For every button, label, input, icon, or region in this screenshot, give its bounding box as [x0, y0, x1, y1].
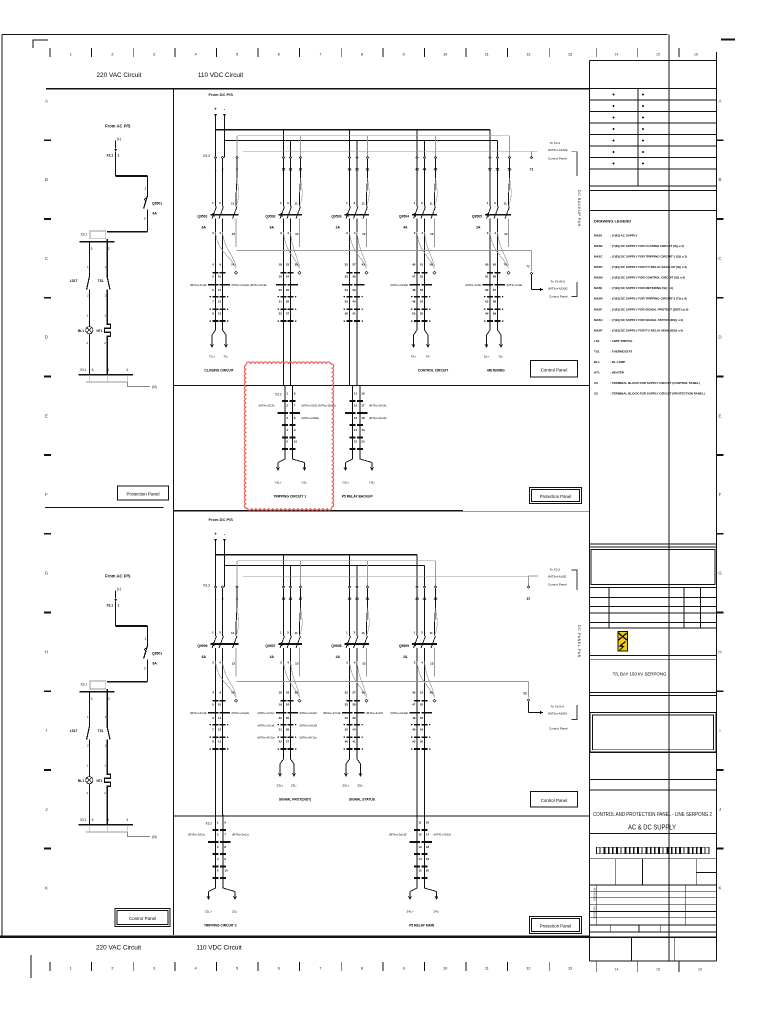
svg-text:From DC P/S: From DC P/S — [209, 92, 234, 97]
svg-text:12: 12 — [418, 833, 422, 837]
svg-text:HT1: HT1 — [96, 329, 102, 333]
svg-text:32: 32 — [345, 263, 349, 267]
svg-text:From AC P/S: From AC P/S — [105, 124, 131, 129]
connector/terminal rows of Q9508 circuit — [323, 690, 383, 750]
connector/terminal rows of Q9506 circuit — [190, 690, 249, 750]
svg-text:55: 55 — [420, 740, 424, 744]
svg-text:MA50: MA50 — [594, 233, 602, 237]
svg-text:Q9507: Q9507 — [265, 644, 275, 648]
svg-text:LS1T: LS1T — [70, 729, 78, 733]
svg-text:HT1: HT1 — [96, 779, 102, 783]
power source From AC P/S (control panel) — [105, 124, 131, 153]
svg-text:39: 39 — [352, 716, 356, 720]
svg-text:11: 11 — [354, 391, 357, 395]
svg-text:2A: 2A — [403, 655, 408, 659]
value labels bottom connector rows — [257, 724, 317, 740]
terminal 72 — [526, 265, 533, 275]
svg-text:TA-: TA- — [426, 355, 431, 359]
svg-text:BL1: BL1 — [594, 360, 600, 364]
svg-text:11: 11 — [295, 631, 299, 635]
svg-text:6A: 6A — [153, 662, 158, 666]
svg-text:X3.1: X3.1 — [81, 683, 88, 687]
svg-text:50: 50 — [412, 312, 416, 316]
wire: Q9509 feed to P5 relay main — [417, 749, 425, 816]
svg-text:2: 2 — [111, 53, 113, 57]
svg-text:58: 58 — [523, 692, 527, 696]
svg-text:(MTAx+2w1)E: (MTAx+2w1)E — [390, 283, 408, 287]
net arrows DL+/DL- (METERING) — [484, 321, 504, 358]
svg-text:14: 14 — [615, 53, 619, 57]
svg-text:4A: 4A — [270, 655, 275, 659]
svg-text:11: 11 — [218, 716, 221, 720]
svg-text:46: 46 — [412, 263, 416, 267]
svg-text:11: 11 — [362, 202, 366, 206]
svg-text:25: 25 — [286, 716, 290, 720]
label box Control Panel (top middle right) — [531, 361, 578, 378]
svg-text:(MTAx+2Y1)x: (MTAx+2Y1)x — [258, 711, 276, 715]
wire: left branch — [88, 692, 90, 727]
svg-text:3: 3 — [153, 53, 155, 57]
svg-text:: (Y)E() DC SUPPLY FOR SIGNAL: : (Y)E() DC SUPPLY FOR SIGNAL STATUS (DS… — [610, 318, 683, 322]
svg-text:H: H — [718, 649, 721, 654]
svg-text:(MTAx+S/1)E: (MTAx+S/1)E — [190, 711, 207, 715]
wires to lamp/heater — [89, 290, 107, 327]
svg-text:4: 4 — [195, 967, 197, 971]
svg-text:Z5L+: Z5L+ — [343, 784, 350, 788]
svg-text:47: 47 — [412, 275, 416, 279]
breaker Q9508 4A — [331, 588, 369, 697]
wire: gray aux tie (bottom) — [237, 682, 529, 698]
svg-text:To X3.3: To X3.3 — [550, 567, 561, 571]
svg-text:12: 12 — [218, 728, 222, 732]
svg-text:Q9505: Q9505 — [472, 215, 482, 219]
svg-text:11: 11 — [418, 820, 421, 824]
svg-text:X3.1: X3.1 — [80, 818, 87, 822]
svg-text:T/L BAY 150 kV SERPONG: T/L BAY 150 kV SERPONG — [613, 672, 667, 677]
svg-text:20: 20 — [426, 868, 430, 872]
lamp BL1 — [78, 764, 93, 796]
svg-text:49: 49 — [412, 728, 416, 732]
svg-text:15: 15 — [656, 968, 660, 972]
svg-text:2: 2 — [108, 247, 110, 251]
svg-text:I: I — [46, 728, 47, 733]
svg-text:50: 50 — [412, 740, 416, 744]
svg-text:(MT3x+A1/)E: (MT3x+A1/)E — [548, 575, 566, 579]
svg-text:40: 40 — [352, 728, 356, 732]
svg-text:X3: X3 — [594, 381, 598, 385]
svg-text:52: 52 — [420, 275, 424, 279]
svg-text:14: 14 — [615, 968, 619, 972]
label box Protection Panel (bottom middle right) — [530, 917, 582, 934]
heater HT1 — [96, 764, 110, 796]
label box Protection Panel (left top) — [118, 486, 169, 500]
svg-text:MA5H: MA5H — [594, 318, 603, 322]
svg-text:19: 19 — [361, 428, 365, 432]
svg-text:4: 4 — [126, 818, 128, 822]
terminal block rows TRIPPING CIRCUIT 1 — [259, 385, 336, 449]
svg-text:X3.1: X3.1 — [80, 368, 87, 372]
svg-text:72: 72 — [526, 265, 530, 269]
wire: auxiliary rail (gray upper) — [237, 561, 436, 587]
svg-text:DC BACKUP PAN.: DC BACKUP PAN. — [577, 190, 581, 228]
svg-text:3: 3 — [91, 697, 93, 701]
svg-text:Z1L+: Z1L+ — [205, 910, 212, 914]
svg-text:15: 15 — [354, 439, 358, 443]
svg-text:(L): (L) — [117, 137, 121, 141]
svg-text:Z4L+: Z4L+ — [407, 910, 414, 914]
breaker Q9506 6A — [197, 588, 238, 697]
svg-text:: (Y)E() DC SUPPLY FOR CLOSING: : (Y)E() DC SUPPLY FOR CLOSING CIRCUIT (… — [610, 244, 684, 248]
svg-text:12: 12 — [362, 232, 366, 236]
svg-text:6A: 6A — [153, 212, 158, 216]
svg-text:14: 14 — [231, 263, 235, 267]
wire: control/protection separator (bottom middle) — [174, 815, 590, 817]
svg-text:17: 17 — [426, 833, 430, 837]
svg-text:26: 26 — [286, 300, 290, 304]
svg-text:64: 64 — [485, 312, 489, 316]
svg-text:Q9509: Q9509 — [399, 644, 409, 648]
terminal X3.1 pin 1 — [107, 604, 120, 608]
svg-text:F: F — [719, 492, 722, 497]
svg-text:(MTAx+8Y1)a: (MTAx+8Y1)a — [300, 736, 318, 740]
svg-text:DC PANEL PAN.: DC PANEL PAN. — [577, 625, 581, 660]
svg-text:TRIPPING CIRCUIT 2: TRIPPING CIRCUIT 2 — [204, 924, 237, 928]
svg-text:(M3Ax+2Y1)E: (M3Ax+2Y1)E — [323, 711, 341, 715]
svg-text:23: 23 — [286, 263, 290, 267]
net To X3.4 from terminal 72 — [532, 275, 578, 298]
svg-text:APPROVAL: APPROVAL — [593, 888, 597, 902]
svg-text:67: 67 — [493, 288, 497, 292]
svg-text:54: 54 — [420, 300, 424, 304]
net To X3.3 (bottom right) — [529, 567, 578, 590]
svg-text:1: 1 — [145, 637, 147, 641]
node (N) neutral — [127, 832, 156, 839]
svg-text:69: 69 — [493, 312, 497, 316]
svg-text:1: 1 — [70, 53, 72, 57]
svg-text:54: 54 — [420, 728, 424, 732]
svg-text:16: 16 — [698, 968, 702, 972]
svg-text:DRAWING LEGEND: DRAWING LEGEND — [594, 219, 631, 224]
svg-text:16: 16 — [361, 391, 365, 395]
svg-text:(MTAx+S/1)E: (MTAx+S/1)E — [190, 283, 207, 287]
svg-text:(MTAx+2w1)E: (MTAx+2w1)E — [389, 833, 407, 837]
svg-text:TS1: TS1 — [594, 349, 600, 353]
svg-text:X3.1: X3.1 — [107, 154, 114, 158]
terminal block rows P5 RELAY BACKUP — [345, 385, 387, 449]
terminal block rows TRIPPING CIRCUIT 2 — [188, 814, 250, 878]
svg-text:(MT3x+A1X)E: (MT3x+A1X)E — [548, 148, 568, 152]
svg-text:27: 27 — [286, 740, 290, 744]
svg-text:6A: 6A — [202, 226, 207, 230]
net arrows TA+/TA- (CONTROL CIRCUIT) — [411, 321, 431, 358]
net arrows Z5L+/Z5L- (SIGNAL STATUS) — [343, 750, 364, 787]
svg-text:: (Y)E() DC SUPPLY FOR SIGNAL: : (Y)E() DC SUPPLY FOR SIGNAL PROTECT (D… — [610, 307, 688, 311]
svg-text:41: 41 — [352, 312, 356, 316]
svg-text:10: 10 — [218, 703, 222, 707]
svg-text:H: H — [45, 649, 48, 654]
svg-text:7: 7 — [319, 967, 321, 971]
svg-text:Control Panel: Control Panel — [541, 368, 568, 373]
wire from X3.1-1 to switch — [116, 602, 148, 646]
svg-text:35: 35 — [345, 300, 349, 304]
svg-text:(L): (L) — [117, 587, 121, 591]
svg-text:(MT3x+S/1E: (MT3x+S/1E — [507, 283, 523, 287]
svg-text:MA5F: MA5F — [594, 307, 602, 311]
terminal block X3.1 (bottom bus) — [79, 368, 134, 382]
svg-text:68: 68 — [493, 300, 497, 304]
svg-text:61: 61 — [485, 275, 489, 279]
svg-text:13: 13 — [568, 967, 572, 971]
svg-text:14: 14 — [354, 428, 358, 432]
svg-text:5: 5 — [236, 967, 238, 971]
svg-text:X3.2: X3.2 — [203, 154, 210, 158]
svg-text:(MT41+2H1)K: (MT41+2H1)K — [434, 833, 452, 837]
lamp BL1 — [78, 314, 93, 346]
svg-text:Protection Panel: Protection Panel — [540, 494, 572, 499]
wire: Q9502 feed to tripping circuit 1 — [284, 321, 291, 385]
svg-text:: (Y)E() DC SUPPLY FOR CONTROL: : (Y)E() DC SUPPLY FOR CONTROL CIRCUIT (… — [610, 276, 685, 280]
svg-text:5: 5 — [107, 818, 109, 822]
svg-text:16: 16 — [426, 820, 430, 824]
svg-text:63: 63 — [485, 300, 489, 304]
wire from switch to bus X3.1 — [107, 210, 147, 232]
svg-text:T/L+: T/L+ — [209, 355, 215, 359]
svg-text:Z5L-: Z5L- — [357, 784, 363, 788]
svg-text:CONTROL CIRCUIT: CONTROL CIRCUIT — [418, 369, 449, 373]
wire: gray aux tie (top) — [237, 251, 532, 272]
svg-text:37: 37 — [352, 263, 356, 267]
wire: Q9506 feed to tripping circuit 2 — [216, 749, 223, 816]
svg-text:11: 11 — [231, 202, 235, 206]
net arrows Y2L+/Y2L- (TRIPPING CIRCUIT 1) — [274, 449, 307, 485]
svg-text:TA+: TA+ — [411, 355, 417, 359]
svg-text:12: 12 — [504, 232, 508, 236]
svg-text:: (Y)E() AC SUPPLY: : (Y)E() AC SUPPLY — [610, 233, 637, 237]
svg-text:9: 9 — [403, 53, 405, 57]
svg-text:7: 7 — [319, 53, 321, 57]
svg-text:57: 57 — [527, 597, 531, 601]
svg-text:26: 26 — [286, 728, 290, 732]
title block: barcode strip — [590, 847, 717, 859]
limit switch LS1T — [70, 715, 90, 748]
svg-text:(MTAx+S1E) (MTAx+2H1E): (MTAx+S1E) (MTAx+2H1E) — [302, 404, 336, 408]
heater HT1 — [96, 314, 110, 346]
title block: drawing number row — [590, 779, 717, 790]
terminal block X3.1 (top bus) — [79, 681, 114, 701]
svg-text:Z3L-: Z3L- — [291, 784, 297, 788]
svg-text:110 VDC Circuit: 110 VDC Circuit — [196, 945, 242, 952]
svg-text:35: 35 — [345, 728, 349, 732]
wire: section separator above DC protection part — [174, 510, 463, 512]
svg-text:11: 11 — [485, 53, 489, 57]
svg-text:From DC P/S: From DC P/S — [209, 517, 234, 522]
svg-text:36: 36 — [345, 740, 349, 744]
svg-text:56: 56 — [430, 691, 434, 695]
wire: header separator — [46, 88, 590, 90]
svg-text:BL1: BL1 — [78, 329, 84, 333]
svg-text:D: D — [718, 335, 721, 340]
svg-text:11: 11 — [362, 631, 366, 635]
svg-text:To X3.5-A: To X3.5-A — [551, 704, 566, 708]
svg-text:Control Panel: Control Panel — [129, 916, 156, 921]
svg-text:10: 10 — [294, 439, 298, 443]
svg-text:37: 37 — [352, 691, 356, 695]
svg-text:Q9508: Q9508 — [331, 644, 341, 648]
svg-text:2A: 2A — [476, 226, 481, 230]
svg-text:110 VDC Circuit: 110 VDC Circuit — [198, 72, 244, 79]
wire: left branch — [88, 242, 90, 277]
svg-text:10: 10 — [224, 868, 228, 872]
wire: AC/DC section divider — [173, 89, 175, 935]
svg-text:41: 41 — [352, 740, 356, 744]
svg-text:K: K — [719, 886, 722, 891]
switch Q9501 6A (control panel) — [144, 187, 163, 221]
svg-text:33: 33 — [345, 703, 349, 707]
svg-text:: LIMIT SWITCH: : LIMIT SWITCH — [610, 339, 632, 343]
svg-text:220 VAC Circuit: 220 VAC Circuit — [96, 945, 141, 952]
svg-text:I: I — [719, 728, 720, 733]
net To X3.4 from terminal 58 — [529, 702, 578, 731]
terminal block rows P5 RELAY MAIN — [389, 814, 451, 878]
svg-text:66: 66 — [493, 275, 497, 279]
svg-text:(MTAx+3u1)K: (MTAx+3u1)K — [366, 711, 383, 715]
svg-text:20: 20 — [361, 439, 365, 443]
svg-text:2: 2 — [144, 217, 146, 221]
svg-text:53: 53 — [420, 716, 424, 720]
svg-text:11: 11 — [485, 967, 489, 971]
svg-text:J: J — [719, 807, 721, 812]
net arrows Z4L+/Z4L- (P5 RELAY MAIN) — [407, 878, 440, 914]
svg-text:18: 18 — [426, 845, 430, 849]
svg-text:25: 25 — [286, 288, 290, 292]
svg-text:27: 27 — [286, 312, 290, 316]
svg-text:24: 24 — [286, 275, 290, 279]
svg-text:K: K — [45, 886, 48, 891]
title block: bay name box — [590, 655, 717, 695]
svg-text:J: J — [45, 807, 47, 812]
svg-text:28: 28 — [295, 691, 299, 695]
switch Q9501 6A (protection panel) — [144, 637, 163, 671]
svg-text:23: 23 — [286, 691, 290, 695]
wires to lamp/heater — [89, 740, 107, 777]
svg-text:LS1: LS1 — [594, 339, 600, 343]
svg-text:MA5B: MA5B — [594, 244, 603, 248]
wire: DC - distribution rail — [225, 141, 498, 158]
svg-text:Q9501: Q9501 — [197, 215, 207, 219]
svg-text:4: 4 — [126, 368, 128, 372]
svg-text:: (Y)E() DC SUPPLY FOR METERIN: : (Y)E() DC SUPPLY FOR METERING (S)( v.4… — [610, 286, 673, 290]
svg-text:Control Panel: Control Panel — [541, 798, 568, 803]
svg-text:DL+: DL+ — [484, 355, 490, 359]
svg-text:6A: 6A — [270, 226, 275, 230]
title block: company box — [590, 544, 717, 588]
svg-text:4: 4 — [195, 53, 197, 57]
svg-text:P5 RELAY BACKUP: P5 RELAY BACKUP — [342, 495, 374, 499]
svg-text:P5 RELAY MAIN: P5 RELAY MAIN — [409, 924, 435, 928]
svg-text:(MTAx+2H1K): (MTAx+2H1K) — [369, 404, 387, 408]
svg-text:Q9506: Q9506 — [197, 644, 207, 648]
svg-text:9: 9 — [403, 967, 405, 971]
svg-text:MA5P: MA5P — [594, 328, 602, 332]
svg-text:(MTAx+2H1K): (MTAx+2H1K) — [369, 416, 387, 420]
svg-text:C: C — [45, 256, 48, 261]
connector/terminal rows of Q9501 circuit — [190, 262, 267, 322]
svg-text:71: 71 — [530, 168, 534, 172]
svg-text:D: D — [45, 335, 48, 340]
title block: reference table — [585, 859, 717, 961]
net arrows Z1L+/Z1L- (TRIPPING CIRCUIT 2) — [205, 878, 238, 914]
label box Control Panel (bottom middle right) — [531, 792, 578, 808]
svg-text:F: F — [45, 492, 48, 497]
svg-text:14: 14 — [418, 857, 422, 861]
svg-text:12: 12 — [430, 232, 434, 236]
wire: DC - distribution rail — [225, 566, 425, 588]
svg-text:B: B — [719, 177, 722, 182]
svg-text:E: E — [719, 413, 722, 418]
svg-text:38: 38 — [352, 275, 356, 279]
svg-text:12: 12 — [295, 232, 299, 236]
svg-text:Q9501: Q9501 — [152, 202, 162, 206]
terminal strip X3.2 — [203, 154, 533, 171]
title block: drawing title — [590, 812, 717, 834]
svg-text:SIGNAL PROT(DIST): SIGNAL PROT(DIST) — [279, 798, 311, 802]
svg-text:12: 12 — [430, 661, 434, 665]
svg-text:Control Panel: Control Panel — [548, 583, 567, 587]
svg-text:X3.3: X3.3 — [203, 584, 210, 588]
power source From DC P/S (protection side) — [209, 517, 234, 587]
svg-text:(MTAx+8Y1)a: (MTAx+8Y1)a — [257, 736, 275, 740]
svg-text:METERING: METERING — [487, 369, 505, 373]
svg-text:12: 12 — [218, 300, 222, 304]
svg-text:: (Y)E() DC SUPPLY FOR P 5 REL: : (Y)E() DC SUPPLY FOR P 5 RELAY BACK-UP… — [610, 265, 687, 269]
svg-text:52: 52 — [420, 703, 424, 707]
svg-text:24: 24 — [286, 703, 290, 707]
svg-text:4A: 4A — [336, 655, 341, 659]
breaker Q9501 6A — [197, 159, 238, 268]
svg-text:Q9502: Q9502 — [265, 215, 275, 219]
svg-text:: HEATER: : HEATER — [610, 371, 625, 375]
svg-text:4A: 4A — [403, 226, 408, 230]
svg-text:Control Panel: Control Panel — [548, 157, 567, 161]
connector/terminal rows of Q9504 circuit — [390, 262, 435, 322]
svg-text:Z4L-: Z4L- — [433, 910, 439, 914]
svg-text:Z1L-: Z1L- — [232, 910, 238, 914]
svg-text:12: 12 — [232, 661, 236, 665]
svg-text:48: 48 — [412, 288, 416, 292]
svg-text:13: 13 — [218, 740, 222, 744]
wire from X3.1-1 to switch — [116, 152, 148, 196]
svg-text:33: 33 — [345, 275, 349, 279]
svg-text:Q9501: Q9501 — [152, 652, 162, 656]
svg-text:G: G — [45, 571, 49, 576]
wire from switch to bus X3.1 — [107, 660, 147, 682]
svg-text:56: 56 — [430, 263, 434, 267]
net arrows T/L+/T/L- (CLOSING CIRCUIT) — [209, 321, 229, 358]
connector/terminal rows of Q9507 circuit — [258, 690, 318, 750]
svg-text:22: 22 — [279, 740, 283, 744]
svg-text:13: 13 — [568, 53, 572, 57]
svg-text:22: 22 — [279, 312, 283, 316]
svg-text:E: E — [45, 413, 48, 418]
svg-text:42: 42 — [362, 691, 366, 695]
svg-text:12: 12 — [295, 661, 299, 665]
power source From AC P/S (protection panel) — [105, 574, 131, 603]
svg-text:10: 10 — [443, 967, 447, 971]
svg-text:11: 11 — [231, 631, 235, 635]
svg-text:(MTAx+S/1E: (MTAx+S/1E — [465, 283, 481, 287]
svg-text:(MTAx+2A1)x: (MTAx+2A1)x — [232, 833, 250, 837]
svg-text:12: 12 — [354, 404, 358, 408]
